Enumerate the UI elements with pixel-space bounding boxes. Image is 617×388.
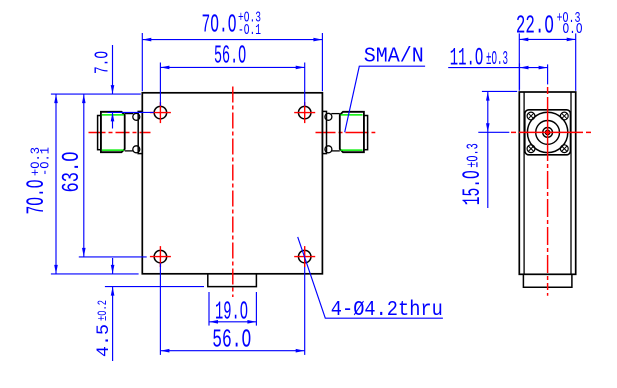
left connector centerline bbox=[89, 132, 151, 134]
side center mark bbox=[546, 131, 549, 134]
dim 19.0 extension line right bbox=[255, 292, 257, 326]
left connector nut bbox=[101, 112, 125, 152]
dim 11.0 extension line left bbox=[519, 63, 521, 89]
svg-text:SMA/N: SMA/N bbox=[364, 46, 424, 69]
left connector end cap bbox=[98, 116, 101, 150]
left connector thread line top bbox=[102, 114, 124, 116]
mounting hole top-left bbox=[154, 106, 167, 119]
svg-text:7O.O: 7O.O bbox=[22, 180, 51, 215]
svg-text:22.O: 22.O bbox=[516, 11, 554, 41]
svg-text:±O.3: ±O.3 bbox=[486, 48, 508, 70]
flange screw bottom-right bbox=[560, 145, 568, 153]
dim 56.0 bottom dimension line bbox=[160, 350, 304, 352]
flange screw top-left bbox=[527, 112, 535, 120]
left connector flange plate bbox=[138, 111, 142, 153]
side view body outline bbox=[519, 92, 575, 274]
dim 4.5 dimension line upper bbox=[112, 258, 114, 274]
svg-text:4.5: 4.5 bbox=[94, 324, 114, 357]
svg-text:-O.1: -O.1 bbox=[38, 147, 53, 176]
dim 63.0 dimension line bbox=[83, 94, 85, 257]
right connector centerline bbox=[316, 132, 376, 134]
dim 56.0 top dimension line bbox=[160, 66, 304, 68]
svg-text:56.O: 56.O bbox=[214, 41, 246, 71]
dim 56.0 bottom extension line right bbox=[304, 267, 306, 355]
mounting hole bottom-left center cross bbox=[150, 256, 171, 258]
side vertical centerline bbox=[547, 87, 549, 296]
dim 70.0 top dimension line bbox=[142, 39, 322, 41]
dim 56.0 top extension line right bbox=[304, 63, 306, 106]
dim 56.0 bottom extension line left bbox=[159, 263, 161, 355]
front vertical centerline bbox=[232, 87, 234, 298]
dim 70.0 left extension line top bbox=[51, 93, 141, 95]
dim 70.0 left extension line bottom bbox=[51, 273, 139, 275]
right connector thread line bottom bbox=[341, 149, 363, 151]
dim 22.0 extension line right bbox=[575, 33, 577, 90]
dim 19.0 extension line left bbox=[208, 292, 210, 326]
side view inner wall left bbox=[523, 92, 525, 274]
side connector flange square bbox=[525, 110, 571, 155]
svg-text:±O.3: ±O.3 bbox=[465, 143, 484, 168]
svg-text:19.O: 19.O bbox=[215, 296, 248, 326]
side horizontal centerline bbox=[511, 131, 591, 133]
dim 63.0 extension line bottom bbox=[79, 256, 147, 258]
dim 19.0 dimension line bbox=[209, 321, 256, 323]
svg-text:56.O: 56.O bbox=[212, 324, 251, 354]
svg-text:63.O: 63.O bbox=[59, 152, 86, 193]
right connector nut bbox=[340, 112, 364, 152]
svg-text:7.O: 7.O bbox=[92, 51, 114, 74]
left connector barrel top line bbox=[125, 113, 134, 115]
flange screw bottom-left bbox=[527, 145, 535, 153]
dim 4.5 extension line bbox=[105, 286, 204, 288]
left connector thread line bottom bbox=[102, 149, 124, 151]
side connector middle circle bbox=[536, 120, 560, 144]
right connector flange arc bottom bbox=[325, 146, 332, 153]
dim 11.0 dimension line bbox=[448, 67, 547, 69]
mounting hole top-right center cross bbox=[294, 112, 315, 114]
side view inner wall right bbox=[570, 92, 572, 274]
mounting hole bottom-right center cross bbox=[294, 256, 315, 258]
left connector barrel bottom line bbox=[125, 150, 134, 152]
dim 70.0 top extension line left bbox=[141, 33, 143, 91]
left connector flange arc bottom bbox=[133, 146, 140, 153]
mounting hole bottom-left bbox=[154, 250, 167, 263]
side view bottom tab bbox=[523, 274, 572, 287]
side connector center pin bbox=[546, 130, 550, 134]
dim 70.0 left dimension line bbox=[55, 94, 57, 274]
leader SMA/N bbox=[345, 66, 425, 132]
leader 4-dia4.2thru bbox=[298, 237, 443, 318]
mounting hole top-right bbox=[298, 106, 311, 119]
svg-text:11.O: 11.O bbox=[450, 44, 484, 73]
left connector flange arc top bbox=[133, 113, 140, 120]
mounting hole top-left center cross bbox=[150, 112, 171, 114]
dim 15.0 dimension line bbox=[487, 92, 489, 208]
right connector barrel bottom line bbox=[331, 150, 340, 152]
right connector barrel top line bbox=[331, 113, 340, 115]
mounting hole bottom-right bbox=[298, 250, 311, 263]
dim 70.0 top extension line right bbox=[321, 33, 323, 91]
svg-text:7O.O: 7O.O bbox=[202, 10, 237, 40]
side connector outer circle bbox=[527, 112, 567, 152]
right connector flange plate bbox=[322, 111, 326, 153]
right connector thread line top bbox=[341, 114, 363, 116]
right connector end cap bbox=[364, 116, 368, 150]
dim 11.0 extension line center bbox=[547, 64, 549, 84]
dim 56.0 top extension line left bbox=[159, 63, 161, 106]
dim 22.0 extension line left bbox=[518, 33, 520, 90]
side connector inner circle bbox=[543, 127, 553, 137]
front view body outline bbox=[142, 93, 322, 274]
svg-text:4-Ø4.2thru: 4-Ø4.2thru bbox=[331, 299, 443, 322]
svg-text:15.O: 15.O bbox=[458, 170, 487, 205]
dim 4.5 dimension line lower bbox=[112, 287, 114, 361]
dim 7.0 extension line bbox=[108, 111, 154, 113]
dim 22.0 dimension line bbox=[519, 38, 575, 40]
flange screw top-right bbox=[560, 112, 568, 120]
svg-text:O.O: O.O bbox=[563, 22, 583, 38]
svg-text:±O.2: ±O.2 bbox=[95, 300, 110, 321]
svg-text:-O.1: -O.1 bbox=[238, 23, 261, 39]
dim 15.0 extension line top bbox=[482, 90, 517, 92]
dim 7.0 dimension line upper bbox=[112, 45, 114, 94]
dim 7.0 dimension line lower bbox=[112, 112, 114, 128]
right connector flange arc top bbox=[325, 113, 332, 120]
dim 15.0 extension line center bbox=[478, 131, 509, 133]
front view bottom tab bbox=[208, 274, 257, 287]
